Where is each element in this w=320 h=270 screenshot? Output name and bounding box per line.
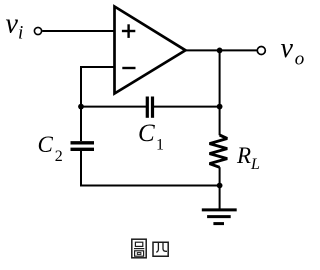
svg-text:i: i xyxy=(18,22,23,43)
svg-text:R: R xyxy=(236,143,251,168)
svg-text:C: C xyxy=(138,120,155,147)
svg-text:o: o xyxy=(295,49,305,70)
svg-text:1: 1 xyxy=(156,137,164,154)
svg-text:C: C xyxy=(38,132,54,157)
svg-text:L: L xyxy=(250,156,260,173)
svg-text:v: v xyxy=(6,9,19,40)
svg-text:v: v xyxy=(281,33,294,64)
svg-text:2: 2 xyxy=(55,148,63,165)
